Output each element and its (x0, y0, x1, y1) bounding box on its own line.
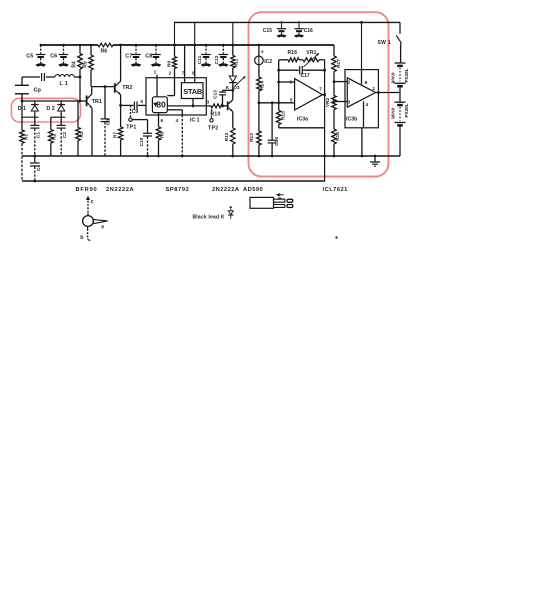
svg-text:6: 6 (160, 118, 163, 124)
svg-text:PX28L: PX28L (404, 68, 409, 82)
svg-text:4: 4 (176, 118, 179, 124)
svg-text:ICL7621: ICL7621 (323, 187, 348, 193)
svg-text:C6: C6 (50, 54, 57, 60)
svg-text:TR2: TR2 (122, 85, 132, 91)
svg-text:C2: C2 (62, 132, 68, 138)
svg-text:R6: R6 (101, 48, 108, 54)
svg-text:STAB: STAB (183, 87, 202, 96)
svg-text:VR1: VR1 (306, 50, 316, 56)
svg-text:C13: C13 (212, 90, 218, 99)
svg-text:R15: R15 (280, 111, 286, 120)
svg-text:+: + (261, 49, 264, 55)
svg-text:7: 7 (182, 71, 185, 77)
svg-text:R16: R16 (288, 50, 298, 56)
svg-text:R7: R7 (113, 132, 119, 138)
svg-text:R11: R11 (234, 58, 240, 67)
svg-text:C10: C10 (139, 137, 145, 146)
svg-text:R17: R17 (336, 59, 342, 68)
svg-text:C7: C7 (125, 54, 132, 60)
svg-text:D 2: D 2 (47, 106, 55, 112)
svg-text:L 1: L 1 (60, 81, 69, 87)
svg-text:2: 2 (348, 79, 351, 85)
svg-text:b: b (80, 235, 83, 241)
svg-text:5: 5 (290, 98, 293, 104)
svg-text:R2: R2 (52, 134, 58, 140)
svg-text:SW 1: SW 1 (378, 40, 391, 46)
svg-text:5: 5 (140, 99, 143, 105)
svg-text:8: 8 (192, 71, 195, 77)
svg-text:C4: C4 (36, 165, 42, 171)
svg-text:AD590: AD590 (243, 187, 263, 193)
svg-text:TP1: TP1 (126, 125, 136, 131)
svg-text:IC3a: IC3a (297, 117, 308, 123)
svg-text:C11: C11 (197, 55, 203, 64)
svg-text:IC2: IC2 (264, 59, 272, 65)
svg-text:R4: R4 (71, 61, 77, 68)
svg-text:c: c (91, 199, 94, 205)
svg-text:2N2222A: 2N2222A (212, 187, 240, 193)
svg-text:6: 6 (289, 80, 292, 86)
svg-text:R9: R9 (166, 61, 172, 67)
svg-text:C15: C15 (263, 28, 272, 34)
svg-text:C9: C9 (132, 109, 139, 115)
svg-text:Black lead K: Black lead K (193, 214, 225, 220)
svg-text:R5: R5 (83, 61, 89, 68)
svg-text:C17: C17 (301, 73, 310, 79)
svg-text:R1: R1 (23, 134, 29, 140)
svg-text:2: 2 (168, 71, 171, 77)
svg-text:BFR90: BFR90 (76, 187, 98, 193)
svg-text:R18: R18 (335, 132, 341, 141)
svg-text:VR2: VR2 (325, 98, 330, 107)
svg-text:R3: R3 (79, 131, 85, 137)
svg-text:C1: C1 (36, 132, 42, 138)
svg-text:8: 8 (364, 80, 367, 86)
svg-text:80: 80 (156, 100, 166, 110)
svg-text:7: 7 (319, 86, 322, 92)
svg-text:TP2: TP2 (208, 125, 218, 131)
svg-text:C3: C3 (105, 119, 111, 125)
svg-text:3: 3 (348, 99, 351, 105)
svg-text:6Volt: 6Volt (390, 73, 395, 84)
svg-text:R12: R12 (224, 132, 230, 141)
svg-text:R8: R8 (160, 132, 166, 138)
svg-text:TR1: TR1 (92, 99, 102, 105)
svg-text:D3: D3 (233, 85, 239, 91)
svg-text:2N2222A: 2N2222A (106, 187, 134, 193)
svg-text:C5: C5 (26, 54, 33, 60)
svg-text:SP8792: SP8792 (166, 187, 190, 193)
svg-text:C14: C14 (274, 137, 280, 146)
svg-text:3: 3 (206, 100, 209, 106)
svg-text:Cp: Cp (34, 88, 42, 94)
svg-text:4: 4 (365, 102, 368, 108)
svg-text:1: 1 (372, 86, 375, 92)
svg-text:R14: R14 (259, 81, 265, 90)
svg-text:IC3b: IC3b (346, 117, 357, 123)
svg-text:PX28L: PX28L (404, 103, 409, 117)
svg-text:6Volt: 6Volt (390, 108, 395, 119)
svg-text:D 1: D 1 (18, 106, 26, 112)
svg-text:IC 1: IC 1 (190, 118, 200, 124)
svg-text:C16: C16 (304, 28, 313, 34)
svg-text:C12: C12 (214, 55, 220, 64)
svg-text:C8: C8 (145, 54, 152, 60)
svg-text:1: 1 (154, 69, 157, 75)
svg-text:R13: R13 (249, 133, 255, 142)
svg-text:e: e (101, 224, 104, 230)
